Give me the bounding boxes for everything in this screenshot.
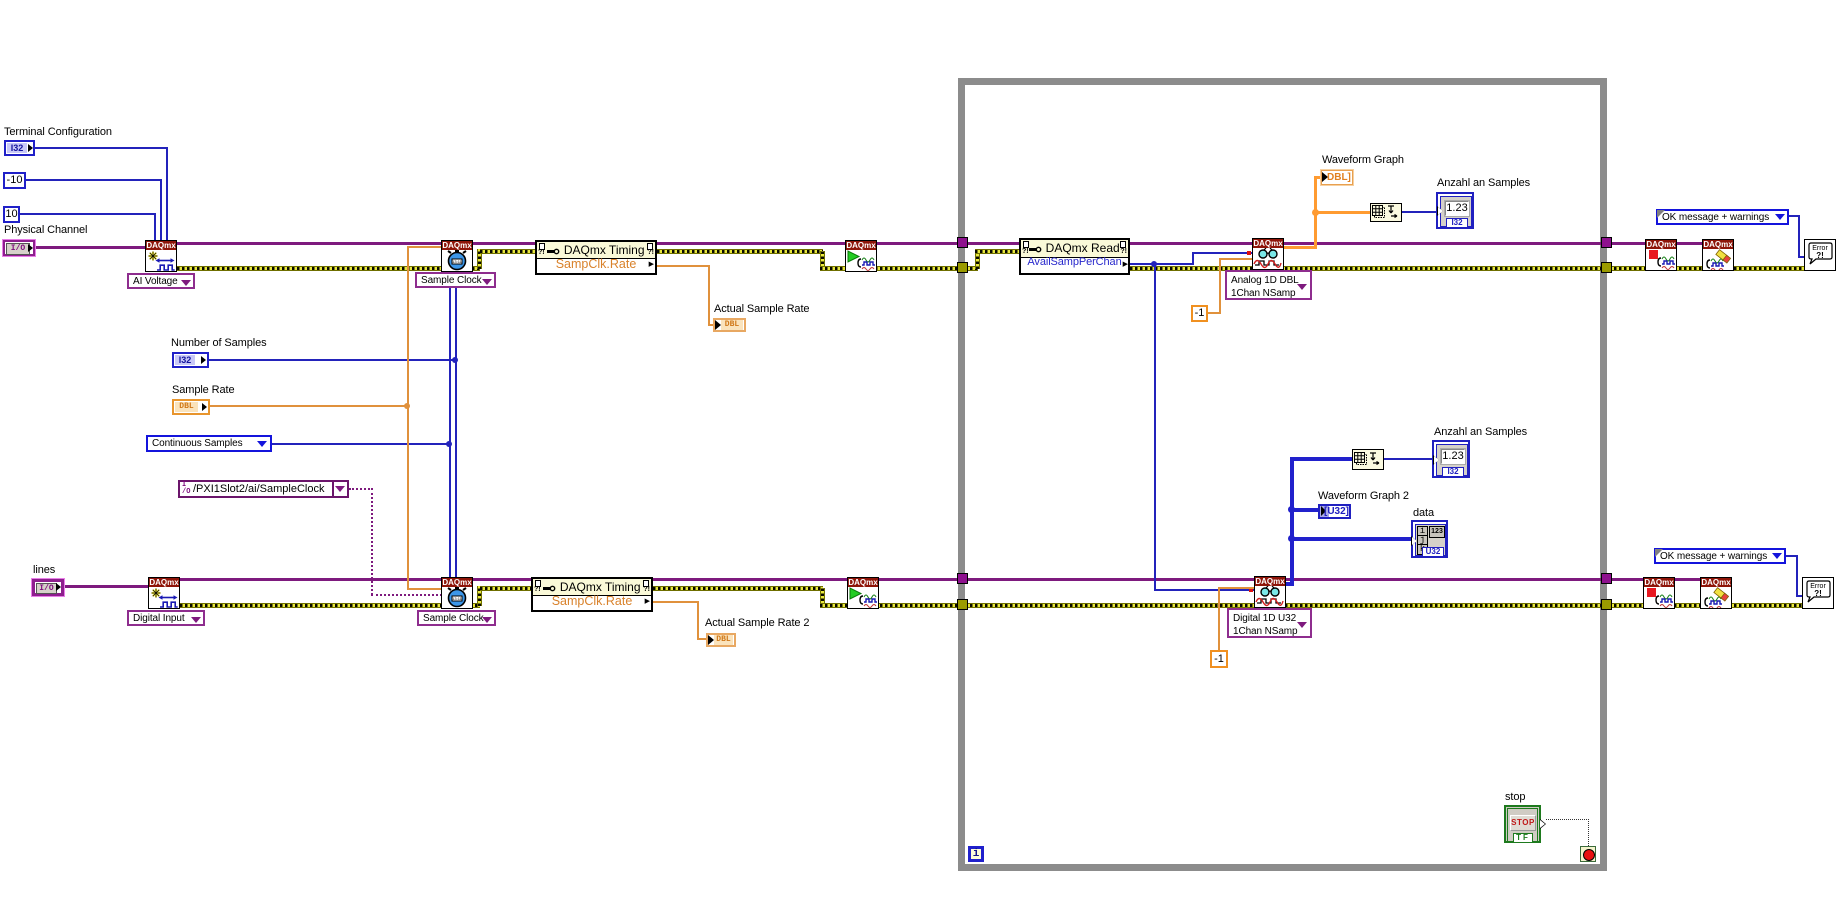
svg-text:?!: ?! xyxy=(1814,589,1822,598)
svg-text:13:11: 13:11 xyxy=(452,596,462,601)
svg-text:?!: ?! xyxy=(1816,251,1824,260)
svg-text:13:11: 13:11 xyxy=(452,259,462,264)
